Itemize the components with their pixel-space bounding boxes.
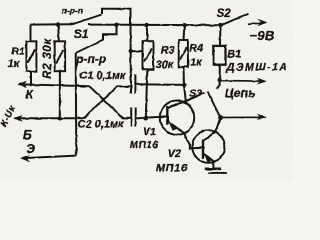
junction R1-collector line — [30, 83, 33, 86]
ground — [205, 169, 227, 173]
junction C1 left plate node — [129, 49, 133, 53]
svg-text:1к: 1к — [190, 57, 202, 69]
svg-text:р-п-р: р-п-р — [75, 52, 106, 66]
transistor V2 emitter — [203, 154, 214, 169]
wire emitter probe line — [23, 156, 77, 159]
wire switch to C1 left plate — [130, 24, 132, 74]
junction rail-R2 — [56, 22, 60, 26]
resistor R1 bottom lead — [30, 71, 32, 85]
arrow K probe — [17, 81, 27, 88]
capacitor C2 — [131, 108, 136, 127]
switch S1 upper arm — [72, 15, 102, 25]
svg-text:К: К — [26, 89, 34, 101]
arrow circuit upper — [220, 78, 267, 85]
wire n-p-n contact bracket — [102, 9, 131, 25]
resistor R4 bottom lead — [183, 67, 186, 85]
wire cross leg A — [89, 86, 130, 118]
earphone B1 top lead — [219, 25, 221, 46]
wire S1 lower contact stub — [103, 25, 117, 41]
switch S1 lower arm — [76, 40, 103, 53]
arrow E probe — [20, 154, 30, 162]
resistor R4 top lead — [183, 25, 186, 40]
svg-text:Цепь: Цепь — [225, 86, 255, 100]
wire top rail left — [30, 23, 72, 25]
resistor R2 — [55, 41, 65, 71]
switch S3 arm — [208, 92, 221, 118]
svg-text:−9В: −9В — [249, 28, 275, 43]
switch S2 arm — [221, 13, 249, 25]
transistor V2 emitter arrow — [204, 154, 212, 162]
junction rail-B1-S2 — [218, 23, 222, 27]
svg-text:С2 0,1мк: С2 0,1мк — [78, 119, 126, 131]
resistor R2 bottom lead — [59, 71, 61, 118]
wire collector probe line — [19, 84, 90, 86]
transistor V2 collector — [203, 118, 220, 142]
svg-text:R1: R1 — [11, 46, 25, 58]
svg-text:ДЭМШ-1А: ДЭМШ-1А — [226, 62, 289, 74]
capacitor C1 — [131, 74, 135, 93]
svg-text:Э: Э — [26, 142, 35, 156]
svg-text:1к: 1к — [8, 58, 21, 70]
wire stub to R3 body — [131, 50, 143, 52]
transistor V1 emitter arrow — [169, 122, 178, 131]
svg-text:R2 30к: R2 30к — [40, 38, 54, 80]
resistor R3 bottom lead — [146, 69, 148, 118]
wire base probe line — [15, 117, 84, 119]
svg-text:S3: S3 — [189, 88, 202, 100]
junction R2-base line — [58, 116, 62, 120]
transistor V2 circle — [192, 130, 225, 163]
arrow circuit lower — [220, 114, 266, 121]
svg-text:МП16: МП16 — [156, 163, 188, 175]
svg-text:С1 0,1мк: С1 0,1мк — [79, 70, 127, 82]
resistor R3 top lead — [146, 25, 149, 41]
svg-text:S1: S1 — [74, 27, 89, 41]
junction R4-C1-V1 collector — [182, 83, 186, 87]
resistor R2 top lead — [57, 25, 60, 42]
transistor V1 collector — [168, 85, 206, 108]
transistor V1 emitter — [167, 121, 202, 148]
earphone B1 bottom lead — [216, 65, 219, 89]
svg-text:п-р-п: п-р-п — [62, 6, 83, 16]
arrow B probe — [13, 115, 23, 122]
svg-text:Б: Б — [23, 128, 32, 142]
junction V2 collector-S3-arrow — [218, 115, 222, 119]
transistor V2 base bar — [202, 140, 204, 159]
resistor R3 — [143, 41, 154, 69]
svg-text:V1: V1 — [143, 126, 156, 138]
svg-text:R4: R4 — [189, 42, 203, 54]
wire top rail right — [88, 24, 221, 27]
wire S1 common vertical — [75, 53, 78, 156]
junction B1-circuit arrow — [218, 78, 222, 82]
transistor V1 circle — [160, 101, 194, 135]
resistor R1 — [26, 41, 36, 71]
svg-text:R3: R3 — [161, 44, 175, 56]
svg-text:V2: V2 — [168, 148, 181, 160]
svg-text:S2: S2 — [217, 8, 232, 20]
svg-text:МП16: МП16 — [130, 140, 159, 151]
junction rail-R4 — [182, 23, 186, 27]
transistor V1 base bar — [166, 106, 168, 125]
junction rail-S1 lower contact — [114, 23, 118, 27]
wire cross leg B — [83, 86, 130, 118]
svg-text:В1: В1 — [227, 48, 241, 60]
earphone B1 — [213, 46, 225, 65]
junction rail-R3 — [144, 23, 148, 27]
resistor R1 top lead — [30, 25, 32, 42]
resistor R4 — [179, 40, 188, 67]
capacitor C1 right wire — [136, 83, 184, 86]
junction R3-C2-V1 base — [144, 116, 148, 120]
capacitor C2 right wire — [137, 116, 167, 118]
svg-text:30к: 30к — [156, 59, 174, 71]
arrow -9V — [248, 19, 268, 26]
